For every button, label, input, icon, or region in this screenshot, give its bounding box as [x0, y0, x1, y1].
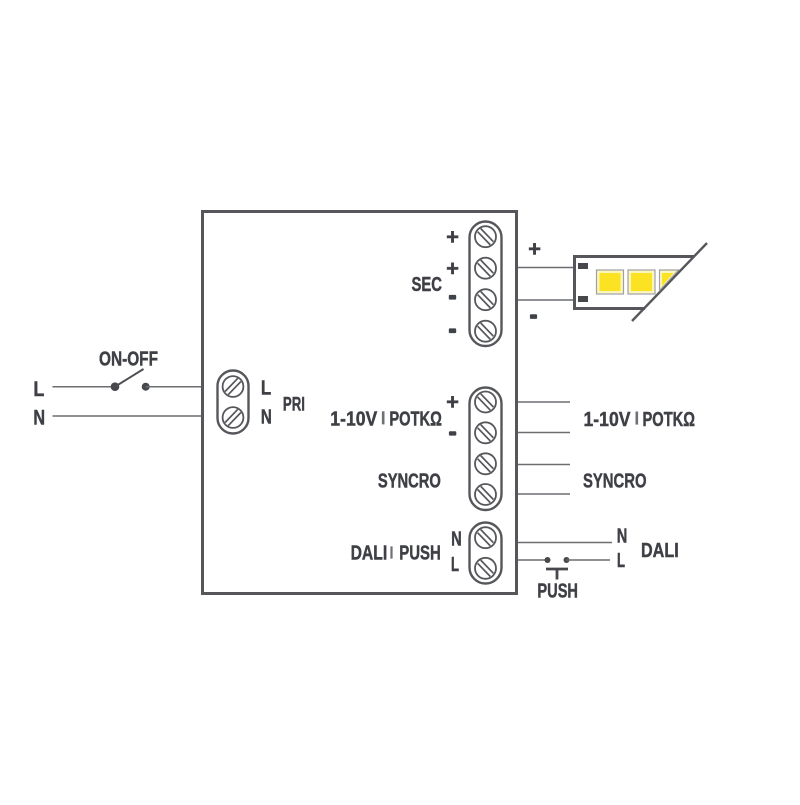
- wire N from supply to box: [53, 415, 202, 417]
- label - (LED wire): [530, 314, 537, 319]
- node: push contact right: [564, 557, 570, 563]
- pin label - (SEC 3): [449, 295, 456, 300]
- separator bar right: [636, 412, 639, 425]
- svg-text:PUSH: PUSH: [399, 541, 441, 564]
- svg-text:ON-OFF: ON-OFF: [99, 347, 158, 370]
- push button stem: [556, 569, 559, 580]
- wire 1-10V +: [518, 401, 570, 403]
- LED strip solder pad +: [578, 263, 588, 269]
- terminal block PRI: [218, 371, 249, 434]
- LED strip solder pad -: [578, 296, 588, 302]
- svg-text:SYNCRO: SYNCRO: [583, 470, 647, 493]
- node: switch contact left: [111, 382, 120, 391]
- pin label - (1-10V): [449, 431, 456, 435]
- svg-text:L: L: [33, 377, 44, 401]
- LED chip 1: [597, 270, 624, 294]
- svg-text:PUSH: PUSH: [537, 580, 578, 603]
- wire SEC - to LED strip: [518, 299, 574, 301]
- wire 1-10V -: [518, 432, 570, 434]
- LED strip body: [573, 255, 694, 310]
- svg-text:+: +: [528, 237, 541, 262]
- separator bar dali: [390, 546, 392, 558]
- node: switch contact right: [142, 383, 150, 391]
- terminal block 1-10V / SYNCRO: [470, 388, 502, 511]
- switch lever ON-OFF: [115, 369, 144, 387]
- wire L from supply to switch: [53, 386, 116, 388]
- LED chip 2: [628, 270, 655, 294]
- svg-text:N: N: [451, 528, 462, 551]
- svg-text:SYNCRO: SYNCRO: [378, 470, 441, 493]
- terminal block SEC: [470, 222, 502, 347]
- wire SYNCRO 2: [518, 493, 570, 495]
- svg-text:PRI: PRI: [283, 394, 305, 415]
- terminal block DALI / PUSH: [470, 523, 502, 584]
- svg-text:POTKΩ: POTKΩ: [389, 407, 442, 430]
- svg-text:L: L: [451, 553, 459, 576]
- svg-text:+: +: [446, 224, 459, 249]
- wire DALI L right segment: [567, 559, 611, 561]
- wire DALI N: [518, 542, 612, 544]
- wire DALI L left segment: [518, 559, 547, 561]
- pin label - (SEC 4): [449, 328, 456, 333]
- svg-text:N: N: [33, 406, 45, 430]
- wire SYNCRO 1: [518, 464, 570, 466]
- svg-text:1-10V: 1-10V: [330, 407, 377, 430]
- push button contact bar: [546, 568, 568, 571]
- svg-text:DALI: DALI: [641, 540, 679, 562]
- svg-text:SEC: SEC: [412, 273, 443, 296]
- svg-text:N: N: [261, 405, 272, 428]
- svg-text:N: N: [617, 525, 628, 548]
- separator bar: [382, 411, 385, 424]
- svg-text:1-10V: 1-10V: [584, 408, 631, 431]
- wire SEC + to LED strip: [518, 267, 574, 269]
- driver box outline: [203, 212, 517, 594]
- wire L from switch to box: [146, 386, 201, 388]
- node: push contact left: [545, 557, 551, 563]
- svg-text:DALI: DALI: [351, 541, 388, 564]
- svg-text:L: L: [617, 549, 625, 572]
- LED strip cut line: [632, 243, 707, 321]
- svg-text:L: L: [261, 377, 271, 400]
- svg-text:+: +: [446, 390, 459, 415]
- LED chip 3 (cut): [660, 270, 679, 291]
- svg-text:POTKΩ: POTKΩ: [643, 408, 696, 431]
- svg-text:+: +: [446, 256, 459, 281]
